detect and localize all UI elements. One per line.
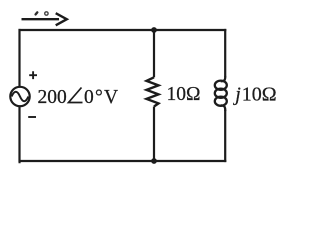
wire top-left segment (19, 29, 155, 31)
wire bottom segment right (154, 160, 226, 162)
wire bottom segment left (19, 160, 155, 162)
svg-text:10Ω: 10Ω (167, 84, 201, 105)
inductor value label j10Ω (232, 84, 276, 106)
resistor R1 top lead (153, 30, 155, 77)
resistor R1 bottom lead (153, 107, 155, 162)
current label Is (36, 12, 49, 15)
node B junction dot (bottom) (151, 158, 157, 164)
wire right lower lead (224, 110, 226, 162)
resistor R1 zigzag (147, 77, 159, 106)
ac source V1 (10, 87, 29, 106)
wire top-right segment (154, 29, 226, 31)
svg-text:10Ω: 10Ω (242, 84, 277, 106)
svg-text:j: j (232, 84, 241, 106)
svg-text:200: 200 (38, 87, 67, 108)
svg-text:0°V: 0°V (84, 87, 119, 108)
wire left lower lead (19, 106, 20, 162)
wire right upper lead (224, 29, 226, 77)
inductor L1 coil (215, 76, 227, 111)
current arrow (22, 13, 67, 25)
source value label 200∠0°V (38, 87, 120, 108)
polarity plus (29, 71, 37, 79)
node A junction dot (top) (151, 27, 157, 33)
polarity minus (28, 116, 36, 118)
wire left upper lead (18, 29, 20, 87)
